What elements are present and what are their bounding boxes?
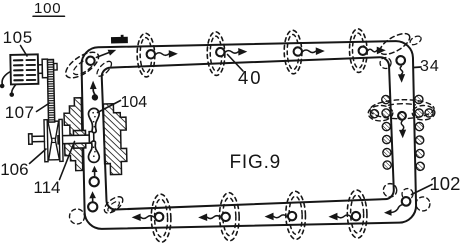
dashed circle right of bottom-right inner corner (402, 188, 413, 199)
arrow of puck I (92, 198, 94, 202)
carrier puck B on top run (147, 50, 156, 59)
inner dashed winding line across track (388, 103, 415, 105)
wavy arrow of bottom puck at T4 (337, 215, 350, 218)
leader line for 34 (414, 66, 422, 69)
station coil T4 on bottom run (dashed) (347, 190, 368, 238)
station coil S2 on top run (dashed) (207, 32, 226, 76)
dashed circle outside bottom-left corner (69, 209, 84, 224)
reference numeral 106 (0, 160, 28, 180)
wavy arrow of puck G (401, 121, 404, 130)
sensor box on top wall (111, 37, 128, 44)
reference numeral 102 (430, 173, 461, 195)
wavy arrow of puck F (400, 66, 403, 74)
reference numeral 34 (420, 58, 440, 76)
leader line for 105 (21, 46, 28, 57)
carrier puck J on left run (89, 177, 98, 186)
track inner wall (101, 57, 394, 210)
coil turns right column (hatched circles) (415, 95, 423, 103)
motor wire 2 (12, 84, 16, 92)
motor 105 body (10, 54, 38, 84)
motor shaft coupler (38, 65, 42, 74)
carrier puck C on top run (216, 48, 225, 57)
station coil S1 on top run (dashed) (137, 33, 156, 77)
dashed circle outside bottom-right corner (416, 197, 430, 211)
underline of reference 100 (33, 15, 65, 17)
dashed winding oval left (368, 105, 393, 121)
guide block right of track (hatched) (103, 104, 127, 175)
wavy arrow of puck B (156, 53, 169, 56)
wavy arrow of bottom puck at T1 (141, 216, 154, 219)
carrier puck on bottom run at T2 (221, 213, 230, 222)
station coil at top-right corner (dashed) (377, 30, 413, 59)
station coil at top-left corner (dashed) (62, 47, 103, 82)
carrier puck on bottom run at T3 (288, 212, 297, 221)
station coil at top-left inner corner (dashed) (95, 59, 114, 79)
pulley axle stub (32, 136, 44, 142)
carrier puck at top-left corner (86, 56, 95, 65)
carrier puck F at top-right corner (396, 56, 405, 65)
dashed oval at bottom-left inner corner (102, 194, 126, 216)
small dashed oval outside top-right corner (409, 34, 423, 46)
arrow of top-left corner puck (96, 53, 109, 58)
reference numeral 114 (33, 178, 60, 198)
wavy arrow of puck C (225, 50, 238, 53)
extra coil turn left of column (370, 110, 378, 118)
leader line for 107 (37, 103, 50, 112)
carrier puck E on top run (359, 46, 368, 55)
arrow of puck K (93, 89, 95, 95)
guide block left of track (hatched) (64, 98, 83, 171)
small filled puck K on left run (92, 94, 99, 101)
dashed circle at bottom-right inner corner (383, 183, 397, 197)
shuttle 104 upper (teardrop shaped) (88, 108, 99, 133)
leader line for 40 (228, 55, 244, 72)
wavy arrow of puck D (303, 50, 316, 53)
station coil T2 on bottom run (dashed) (219, 192, 240, 240)
station coil T3 on bottom run (dashed) (285, 191, 306, 239)
station coil S4 on top run (dashed) (349, 29, 368, 73)
reference numeral 107 (5, 103, 35, 123)
arrow of puck J (94, 172, 96, 175)
motor wire 1 (2, 71, 11, 83)
drive shaft 114 (58, 135, 91, 144)
carrier puck I at bottom-left corner (88, 202, 97, 211)
wavy arrow of puck H (391, 204, 403, 212)
station coil S3 on top run (dashed) (284, 30, 303, 74)
reference numeral 104 (121, 94, 148, 112)
wavy arrow of puck E (368, 49, 377, 52)
leader line for 106 (30, 149, 47, 164)
leader line for 114 (60, 142, 75, 180)
carrier puck G in right run (398, 112, 406, 120)
carrier puck H at bottom-right corner (402, 197, 411, 206)
dashed winding oval right (412, 105, 435, 120)
extra coil turn right of column (425, 109, 433, 117)
carrier puck on bottom run at T4 (352, 212, 361, 221)
wavy arrow of bottom puck at T2 (207, 216, 220, 219)
reference numeral 105 (3, 28, 33, 48)
coil turns left column (hatched circles) (382, 95, 390, 103)
wavy arrow of bottom puck at T3 (274, 215, 287, 218)
reference numeral 100 (34, 0, 61, 17)
reference numeral 40 (238, 67, 263, 89)
bearing nut on shaft (hatched) (73, 130, 85, 148)
pulley 106 (spool) (44, 120, 48, 162)
leader line for 104 (98, 101, 121, 113)
shaft end cap inside track (89, 132, 94, 143)
drive belt 107 (hatched band) (47, 60, 55, 123)
track outer wall (81, 41, 416, 230)
station coil T1 on bottom run (dashed) (151, 194, 172, 242)
small dashed circle below top-right corner (380, 57, 391, 68)
carrier puck D on top run (294, 47, 303, 56)
carrier puck on bottom run at T1 (155, 213, 164, 222)
shuttle 104 lower (teardrop shaped) (88, 141, 99, 163)
dashed winding oval across track (370, 99, 434, 119)
leader line for 102 (412, 185, 433, 195)
figure title FIG.9 (230, 152, 282, 174)
